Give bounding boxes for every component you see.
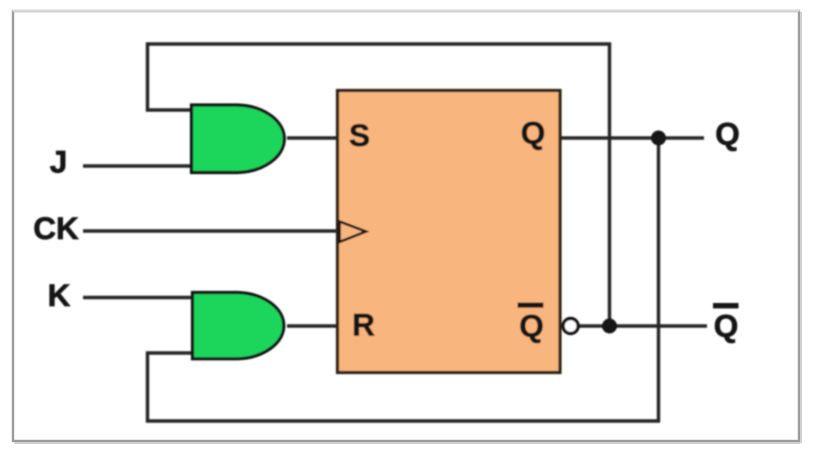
junction dot on Qbar wire [602, 319, 617, 334]
svg-text:K: K [48, 277, 71, 313]
svg-text:J: J [50, 144, 68, 180]
svg-text:Q: Q [714, 308, 739, 344]
svg-text:Q: Q [715, 116, 740, 152]
clock input triangle [340, 222, 367, 243]
svg-text:CK: CK [33, 210, 79, 246]
wire Q output [561, 136, 704, 139]
svg-text:S: S [349, 117, 370, 153]
AND gate G2 (bottom, K input) [193, 293, 284, 359]
node Qbar (output label) [713, 303, 739, 344]
wire K input [83, 296, 193, 299]
svg-text:Q: Q [521, 115, 546, 151]
wire top AND gate output to S [287, 136, 337, 139]
wire feedback from Qbar to top AND gate upper input [148, 44, 610, 326]
AND gate G1 (top, J input) [192, 105, 285, 173]
svg-text:Q: Q [519, 308, 544, 344]
wire CK input [83, 229, 337, 232]
wire J input [83, 164, 191, 167]
wire feedback from Q to bottom AND gate lower input [148, 138, 659, 421]
SR latch U1 (body) [338, 91, 561, 373]
junction dot on Q wire [651, 131, 666, 146]
wire bottom AND gate output to R [287, 324, 337, 327]
pin label Qbar (inside box) [518, 303, 544, 344]
inversion bubble on Qbar [563, 319, 578, 334]
svg-text:R: R [352, 307, 375, 343]
wire Qbar output [579, 324, 707, 327]
